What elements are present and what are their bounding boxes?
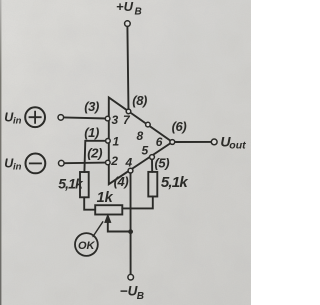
svg-text:8: 8 [137,129,144,143]
svg-text:3: 3 [112,113,119,127]
svg-text:OK: OK [78,240,96,252]
svg-text:1: 1 [113,135,120,149]
svg-text:B: B [135,7,142,18]
svg-text:(1): (1) [84,125,99,140]
svg-text:5,1k: 5,1k [161,174,188,191]
svg-text:in: in [13,162,22,173]
svg-text:2: 2 [110,154,118,168]
svg-text:out: out [229,139,246,151]
svg-text:(8): (8) [132,93,147,108]
svg-text:(2): (2) [87,146,102,161]
svg-text:(4): (4) [114,174,129,189]
svg-text:(6): (6) [172,119,187,134]
svg-text:4: 4 [125,156,133,170]
svg-text:5,1k: 5,1k [58,175,84,191]
svg-text:B: B [137,291,144,302]
svg-text:1k: 1k [97,190,114,206]
svg-text:(5): (5) [155,156,170,171]
svg-text:5: 5 [142,144,149,158]
svg-text:(3): (3) [84,99,99,114]
svg-text:6: 6 [156,135,163,149]
svg-text:+U: +U [116,0,134,14]
svg-text:in: in [13,115,22,126]
